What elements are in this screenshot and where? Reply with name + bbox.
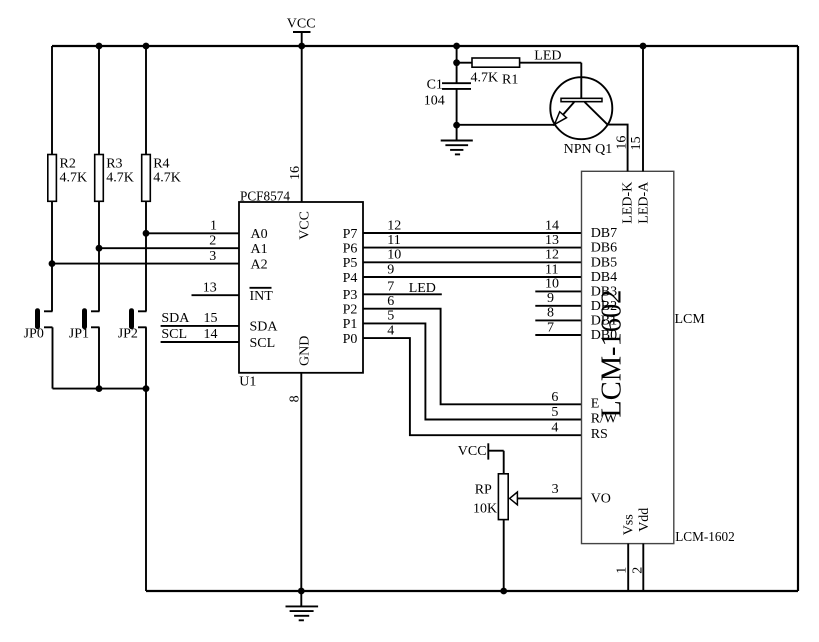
svg-text:LED-A: LED-A (637, 181, 652, 224)
power VCC symbol top (287, 16, 316, 46)
svg-text:4: 4 (387, 323, 394, 338)
pin name INT with overline (250, 288, 274, 304)
svg-text:P7: P7 (343, 227, 358, 242)
svg-text:LED-K: LED-K (620, 182, 635, 224)
wire DB3 stub (535, 290, 581, 292)
wire right vertical rail (797, 46, 799, 591)
svg-text:LCM-1602: LCM-1602 (675, 530, 735, 545)
svg-text:JP2: JP2 (118, 326, 138, 341)
resistor R3 (95, 155, 134, 202)
svg-text:A1: A1 (251, 242, 268, 257)
wire DB0 stub (535, 334, 581, 336)
svg-text:LED: LED (534, 48, 561, 63)
wire RP wiper to VO with arrow (510, 492, 582, 505)
svg-text:VCC: VCC (297, 211, 312, 240)
svg-text:2: 2 (209, 233, 216, 248)
svg-text:DB5: DB5 (591, 255, 617, 270)
svg-text:4.7K: 4.7K (60, 170, 88, 185)
svg-text:4: 4 (551, 421, 558, 436)
wire RP bottom to rail (503, 520, 505, 591)
svg-text:13: 13 (203, 280, 217, 295)
wire mid vertical x99 upper (98, 46, 100, 155)
wire P3 LED stub (363, 293, 442, 295)
ground symbol bottom (286, 591, 319, 620)
potentiometer RP (473, 474, 508, 520)
node LED-A rail junction (640, 43, 647, 50)
wire emitter to C1 node (457, 124, 555, 126)
resistor R2 (48, 155, 87, 202)
svg-text:RS: RS (591, 427, 608, 442)
svg-text:4.7K: 4.7K (153, 170, 181, 185)
wire R4 to JP2 (145, 201, 147, 311)
wire R3 to JP1 (98, 201, 100, 311)
svg-text:R2: R2 (60, 156, 76, 171)
wire SCL (161, 341, 239, 343)
svg-text:C1: C1 (427, 77, 443, 92)
node A0 junction (143, 230, 150, 237)
svg-text:LED: LED (409, 281, 436, 296)
node emitter junction (453, 122, 460, 129)
wire P6 to DB6 (363, 247, 582, 249)
node RP rail junction (500, 588, 507, 595)
op-amp U1 PCF8574 box (239, 202, 363, 373)
svg-text:12: 12 (545, 248, 559, 263)
svg-text:4.7K: 4.7K (471, 71, 499, 86)
svg-text:JP1: JP1 (69, 326, 89, 341)
svg-text:14: 14 (545, 218, 559, 233)
svg-text:10: 10 (545, 277, 559, 292)
svg-text:10: 10 (387, 248, 401, 263)
wire top VCC rail (52, 45, 798, 47)
wire jumper common rail (53, 388, 147, 390)
power VCC symbol pot (458, 443, 504, 459)
svg-text:Vdd: Vdd (637, 508, 652, 532)
jumper JP1 (69, 308, 100, 341)
svg-text:16: 16 (288, 166, 303, 180)
svg-text:P3: P3 (343, 288, 358, 303)
svg-text:R1: R1 (502, 72, 518, 87)
wire JP0 down (52, 327, 54, 388)
svg-text:VO: VO (591, 491, 611, 506)
jumper JP0 (24, 308, 53, 341)
wire collector to LED-K (608, 125, 628, 172)
node GND rail junction (298, 588, 305, 595)
svg-text:P0: P0 (343, 332, 358, 347)
svg-text:13: 13 (545, 233, 559, 248)
svg-text:7: 7 (547, 320, 554, 335)
svg-text:15: 15 (629, 136, 644, 150)
wire VCC stem to U1 pin16 (301, 46, 303, 202)
wire base lead (580, 63, 582, 99)
wire bottom ground rail (146, 590, 798, 592)
svg-text:DB7: DB7 (591, 226, 617, 241)
svg-text:R4: R4 (153, 156, 169, 171)
jumper JP2 (118, 308, 147, 341)
wire VCC to RP (503, 451, 505, 474)
wire P2 to E (363, 309, 582, 405)
svg-text:4.7K: 4.7K (106, 170, 134, 185)
svg-text:1: 1 (210, 219, 217, 234)
svg-text:10K: 10K (473, 502, 497, 517)
svg-text:R3: R3 (106, 156, 122, 171)
svg-text:LCM: LCM (675, 312, 706, 327)
svg-text:14: 14 (204, 327, 218, 342)
wire left vertical x52 upper (51, 46, 53, 155)
wire P1 to RW (363, 323, 582, 419)
svg-text:P6: P6 (343, 241, 358, 256)
svg-text:15: 15 (204, 311, 218, 326)
svg-text:11: 11 (545, 262, 558, 277)
svg-text:5: 5 (551, 405, 558, 420)
svg-text:A2: A2 (251, 257, 268, 272)
svg-text:DB4: DB4 (591, 270, 617, 285)
wire C1 bottom to emitter node (456, 89, 458, 125)
wire LCM Vdd pin2 down (642, 544, 644, 591)
wire A0 (146, 232, 239, 234)
svg-text:P4: P4 (343, 271, 358, 286)
svg-text:VCC: VCC (287, 16, 316, 31)
svg-text:VCC: VCC (458, 444, 487, 459)
wire LED-A to VCC rail (642, 46, 644, 171)
wire DB1 stub (535, 319, 581, 321)
wire P5 to DB5 (363, 261, 582, 263)
svg-text:6: 6 (387, 294, 394, 309)
wire LCM Vss pin1 down (627, 544, 629, 591)
svg-text:INT: INT (250, 289, 274, 304)
svg-text:2: 2 (631, 567, 646, 574)
svg-text:1: 1 (615, 567, 630, 574)
wire A2 (52, 263, 239, 265)
svg-text:RP: RP (475, 482, 492, 497)
svg-text:5: 5 (387, 309, 394, 324)
svg-text:3: 3 (552, 482, 559, 497)
node A1 junction (96, 245, 103, 252)
wire right vertical x146 upper (145, 46, 147, 155)
node rail x146 (143, 43, 150, 50)
node VCC rail junction (298, 43, 305, 50)
wire C1 branch down (456, 46, 458, 83)
wire P0 to RS (363, 338, 582, 435)
wire P7 to DB7 (363, 232, 582, 234)
node JP2 rail junction (143, 385, 150, 392)
svg-text:PCF8574: PCF8574 (240, 189, 290, 204)
resistor R4 (142, 155, 181, 202)
node JP1 bottom rail junction (96, 385, 103, 392)
svg-text:NPN Q1: NPN Q1 (564, 142, 613, 157)
svg-text:7: 7 (387, 280, 394, 295)
svg-text:P2: P2 (343, 303, 358, 318)
svg-text:8: 8 (547, 306, 554, 321)
svg-text:JP0: JP0 (24, 326, 44, 341)
wire A1 (99, 247, 239, 249)
svg-text:12: 12 (387, 218, 401, 233)
capacitor C1 (424, 77, 471, 108)
node A2 junction (49, 260, 56, 267)
wire DB2 stub (535, 305, 581, 307)
wire JP1 down (98, 327, 100, 388)
svg-text:11: 11 (387, 233, 400, 248)
wire INT stub pin13 (192, 294, 240, 296)
svg-text:3: 3 (209, 249, 216, 264)
IC LCM-1602 box (582, 171, 674, 543)
svg-text:LCM-1602: LCM-1602 (595, 290, 627, 418)
svg-text:104: 104 (424, 93, 445, 108)
wire JP2 down to bottom rail (145, 327, 147, 591)
svg-text:P1: P1 (343, 317, 358, 332)
transistor Q1 (550, 77, 612, 157)
wire R2 to JP0 (51, 201, 53, 311)
node rail x99 (96, 43, 103, 50)
node R1 branch junction (453, 59, 460, 66)
svg-text:Vss: Vss (621, 514, 636, 535)
svg-text:SDA: SDA (161, 311, 190, 326)
svg-text:P5: P5 (343, 256, 358, 271)
resistor R1 (457, 58, 582, 87)
wire P4 to DB4 (363, 276, 582, 278)
svg-text:9: 9 (547, 291, 554, 306)
svg-text:GND: GND (297, 336, 312, 366)
ground symbol C1 (441, 125, 473, 154)
svg-text:9: 9 (387, 262, 394, 277)
svg-text:SCL: SCL (250, 336, 276, 351)
node C1 rail junction (453, 43, 460, 50)
svg-text:DB6: DB6 (591, 241, 617, 256)
svg-text:16: 16 (614, 136, 629, 150)
svg-text:U1: U1 (239, 375, 256, 390)
svg-text:SCL: SCL (161, 327, 187, 342)
wire U1 GND pin8 down (300, 373, 302, 591)
svg-text:SDA: SDA (250, 320, 279, 335)
wire SDA (161, 325, 239, 327)
svg-text:6: 6 (551, 390, 558, 405)
svg-text:A0: A0 (251, 227, 268, 242)
